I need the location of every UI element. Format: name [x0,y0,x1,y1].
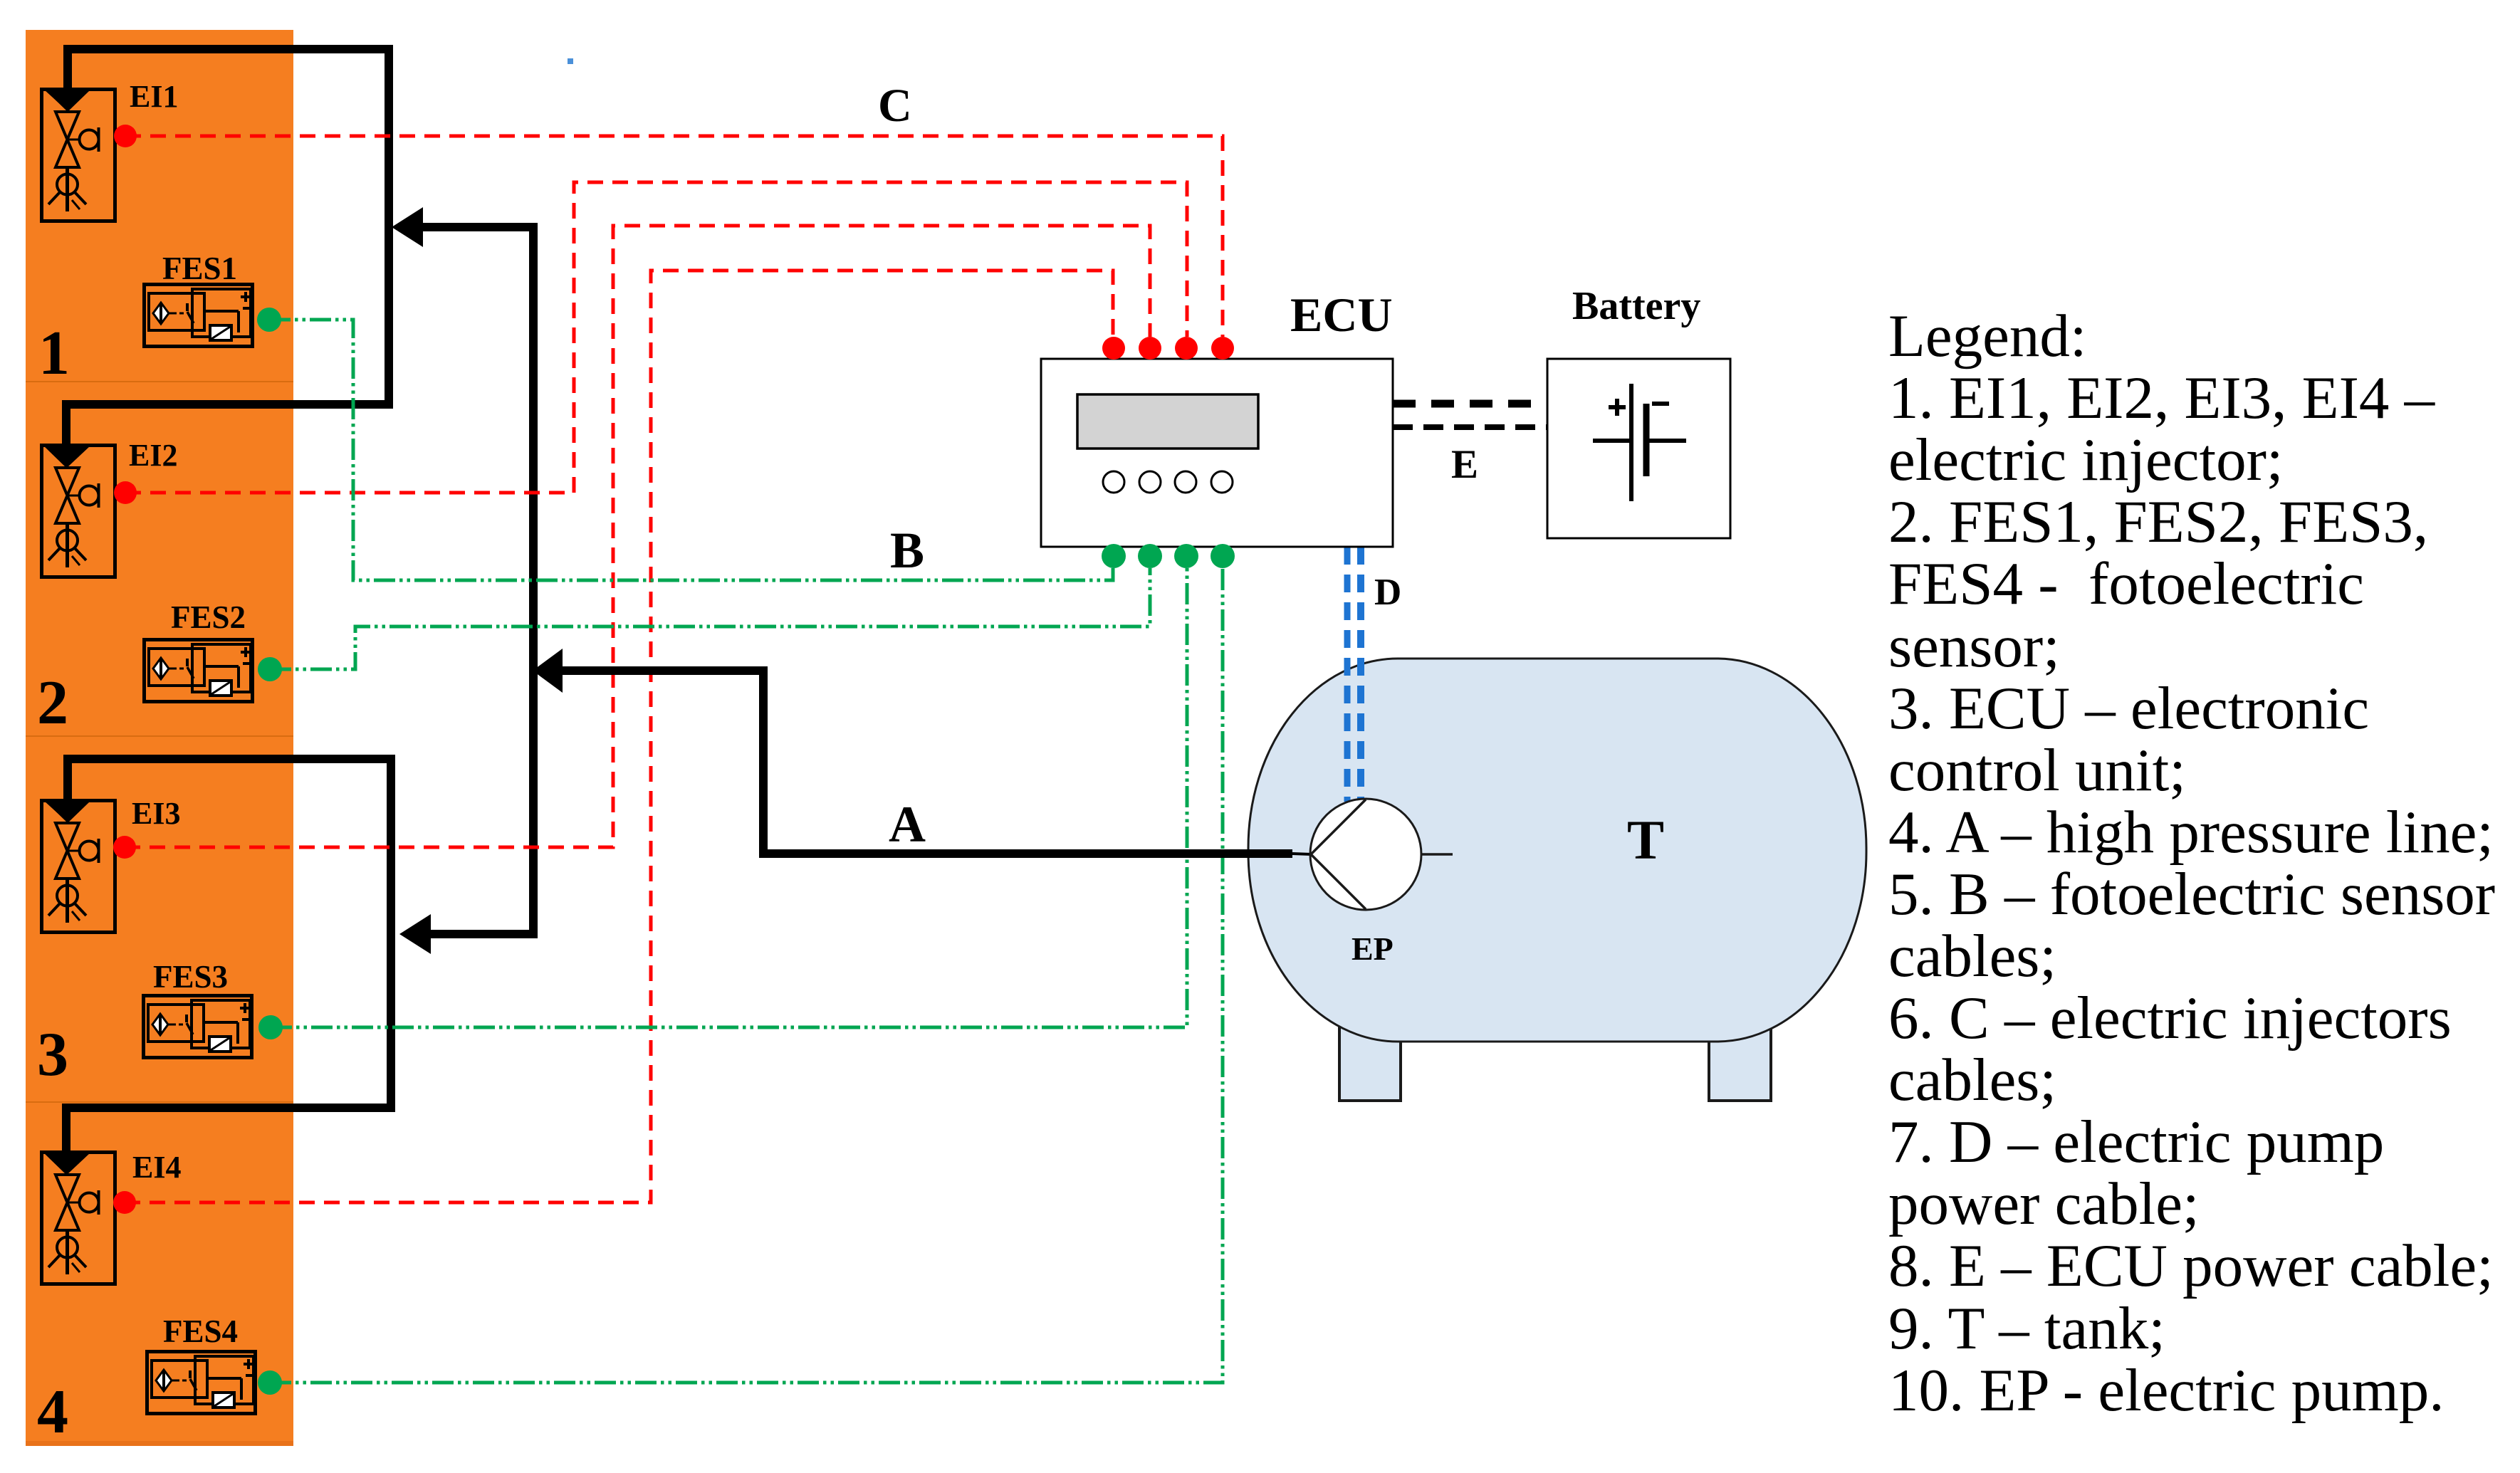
svg-text:control unit;: control unit; [1888,737,2186,804]
wire E: ECU power cable line 1 [1393,400,1547,408]
wire B: FES4 cable [270,568,1223,1383]
svg-text:E: E [1451,442,1478,487]
svg-text:cables;: cables; [1888,1047,2056,1113]
arrow at EI3/EI4 branch [399,914,431,954]
svg-text:3: 3 [37,1020,68,1089]
battery right lead [1646,439,1686,443]
node: ECU sensor pin 4 [1211,544,1235,568]
wire B: FES3 cable [271,568,1187,1027]
pump EP shaft right [1421,853,1453,856]
svg-text:power cable;: power cable; [1888,1170,2200,1237]
svg-text:T: T [1627,809,1664,871]
ECU box [1041,359,1393,547]
node: EI4 terminal [113,1191,136,1214]
svg-text:D: D [1374,572,1401,613]
sensor FES4 [147,1352,256,1414]
sensor FES1 [145,285,253,347]
injector EI3 [42,801,115,933]
pump EP chord lower [1311,854,1366,909]
bank bottom edge [26,1441,293,1446]
node: EI2 terminal [114,481,137,504]
wire C: EI2 cable [125,182,1187,493]
svg-text:8. E – ECU power cable;: 8. E – ECU power cable; [1888,1232,2494,1299]
svg-text:EI1: EI1 [130,79,178,114]
arrow on line A [533,649,563,693]
arrow at EI1/EI2 branch [392,207,423,247]
wire E: ECU power cable line 2 [1393,424,1547,430]
svg-text:cables;: cables; [1888,923,2056,990]
arrow into EI3 [44,800,91,823]
wire: high pressure line EI1/EI2 branch [66,49,389,446]
battery plus sign [1609,405,1626,409]
svg-text:3. ECU – electronic: 3. ECU – electronic [1888,675,2369,742]
wire B: FES2 cable [270,568,1150,669]
wire A: high pressure line from pump [538,671,1292,854]
svg-text:electric injector;: electric injector; [1888,426,2284,493]
svg-text:10. EP - electric pump.: 10. EP - electric pump. [1888,1357,2445,1424]
wire C: EI3 cable [125,226,1150,847]
node: FES4 terminal [258,1370,282,1395]
battery short plate [1643,404,1650,476]
svg-text:A: A [889,796,926,853]
pump EP chord upper [1311,800,1366,854]
ECU button 1 [1103,471,1124,493]
sensor FES2 [145,640,253,702]
svg-text:FES2: FES2 [171,599,246,635]
svg-text:EP: EP [1352,931,1394,967]
svg-text:2. FES1, FES2, FES3,: 2. FES1, FES2, FES3, [1888,488,2428,555]
wire: high pressure line EI3/EI4 branch [66,759,391,1154]
bank divider 1-2 [26,381,293,382]
wire C: EI4 cable [125,271,1113,1202]
injector EI4 [42,1153,115,1284]
node: ECU injector pin 1 [1102,337,1125,360]
svg-text:1. EI1, EI2, EI3, EI4 –: 1. EI1, EI2, EI3, EI4 – [1888,365,2436,431]
svg-text:4: 4 [37,1378,68,1447]
svg-text:EI2: EI2 [129,438,177,473]
pump EP circle [1310,799,1421,910]
svg-text:EI4: EI4 [132,1150,181,1185]
svg-text:1: 1 [38,319,70,388]
node: ECU injector pin 4 [1211,337,1234,360]
svg-text:2: 2 [37,669,68,738]
bank divider 2-3 [26,735,293,737]
node: ECU injector pin 2 [1139,337,1161,360]
svg-text:sensor;: sensor; [1888,613,2060,680]
arrow into EI2 [43,445,90,468]
injector EI2 [42,446,115,577]
wire C: EI1 cable [125,136,1223,337]
node: EI3 terminal [113,836,136,859]
cylinder bank background [26,30,293,1446]
svg-text:FES1: FES1 [162,251,237,286]
wire: high pressure line feed to EI1/EI2 branch [422,227,533,934]
arrow into EI1 [44,89,91,112]
svg-text:5. B – fotoelectric sensor: 5. B – fotoelectric sensor [1888,861,2495,928]
ECU button 3 [1175,471,1196,493]
tank leg left [1339,1025,1401,1101]
svg-text:Battery: Battery [1572,284,1700,328]
battery long plate [1629,384,1633,501]
node: FES3 terminal [258,1015,283,1039]
svg-text:9. T – tank;: 9. T – tank; [1888,1295,2165,1362]
legend text [1888,303,2495,1424]
svg-text:EI3: EI3 [132,796,180,831]
arrow into EI4 [43,1152,90,1175]
battery box [1547,359,1730,538]
svg-text:6. C – electric injectors: 6. C – electric injectors [1888,985,2452,1052]
svg-text:ECU: ECU [1290,288,1393,342]
wire D: electric pump power cable line 2 [1357,547,1364,802]
wire D: electric pump power cable line 1 [1344,547,1351,802]
ECU button 2 [1139,471,1161,493]
svg-text:FES4 - fotoelectric: FES4 - fotoelectric [1888,550,2364,617]
svg-text:C: C [878,80,912,132]
tank leg right [1709,1025,1771,1101]
wire: pump shaft stub [1292,854,1312,854]
svg-text:B: B [890,522,924,579]
tank T [1248,659,1866,1042]
svg-text:FES3: FES3 [153,959,228,995]
ECU display [1077,394,1258,449]
wire B: FES1 cable [269,320,1113,580]
node: ECU sensor pin 2 [1138,544,1162,568]
svg-text:FES4: FES4 [163,1314,238,1349]
svg-text:Legend:: Legend: [1888,303,2087,369]
svg-text:4. A – high pressure line;: 4. A – high pressure line; [1888,799,2494,866]
battery left lead [1593,439,1631,443]
battery minus sign [1652,402,1669,406]
ECU button 4 [1211,471,1233,493]
node: ECU injector pin 3 [1175,337,1198,360]
node: ECU sensor pin 3 [1174,544,1198,568]
stray blue dot [568,58,573,64]
node: EI1 terminal [114,125,137,147]
injector EI1 [42,90,115,221]
svg-text:7. D – electric pump: 7. D – electric pump [1888,1108,2384,1175]
node: FES2 terminal [258,657,282,681]
bank divider 3-4 [26,1101,293,1103]
sensor FES3 [144,996,252,1058]
node: FES1 terminal [257,308,281,332]
node: ECU sensor pin 1 [1102,544,1126,568]
